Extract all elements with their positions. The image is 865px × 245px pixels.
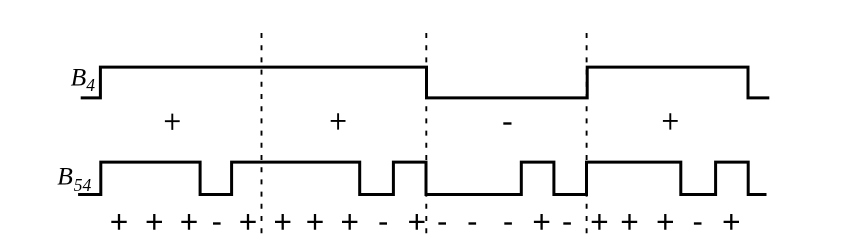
bit sign + (5) bbox=[240, 214, 255, 230]
bit sign + (16) bbox=[592, 214, 607, 230]
bit sign - (15) bbox=[563, 222, 571, 224]
svg-text:B: B bbox=[71, 63, 87, 92]
bit sign - (19) bbox=[694, 222, 702, 224]
dashed divider 1 bbox=[261, 33, 263, 236]
waveform B54 bbox=[78, 162, 766, 194]
bit sign + (6) bbox=[275, 214, 290, 230]
bit sign + (7) bbox=[307, 214, 322, 230]
dashed divider 2 bbox=[425, 33, 427, 236]
label B4 bbox=[71, 63, 96, 96]
bit sign - (9) bbox=[379, 222, 387, 224]
svg-text:4: 4 bbox=[86, 75, 95, 95]
polarity sign + (mid 1) bbox=[165, 114, 180, 130]
bit sign - (13) bbox=[504, 222, 512, 224]
svg-text:B: B bbox=[57, 162, 73, 191]
waveform B4 bbox=[81, 67, 770, 98]
bit sign + (17) bbox=[622, 214, 637, 230]
polarity sign + (mid 2) bbox=[331, 113, 346, 129]
bit sign - (11) bbox=[438, 222, 446, 224]
bit sign + (1) bbox=[111, 214, 126, 230]
svg-text:54: 54 bbox=[74, 175, 92, 195]
bit sign - (12) bbox=[469, 222, 477, 224]
bit sign - (4) bbox=[213, 222, 221, 224]
bit sign + (2) bbox=[147, 214, 162, 230]
bit sign + (20) bbox=[724, 214, 739, 230]
polarity sign + (mid 4) bbox=[663, 113, 678, 129]
bit sign + (18) bbox=[658, 214, 673, 230]
bit sign + (14) bbox=[534, 214, 549, 230]
polarity sign - (mid 3) bbox=[503, 122, 511, 124]
bit sign + (3) bbox=[181, 214, 196, 230]
label B54 bbox=[57, 162, 91, 196]
bit sign + (10) bbox=[409, 214, 424, 230]
dashed divider 3 bbox=[586, 33, 588, 236]
bit sign + (8) bbox=[342, 214, 357, 230]
